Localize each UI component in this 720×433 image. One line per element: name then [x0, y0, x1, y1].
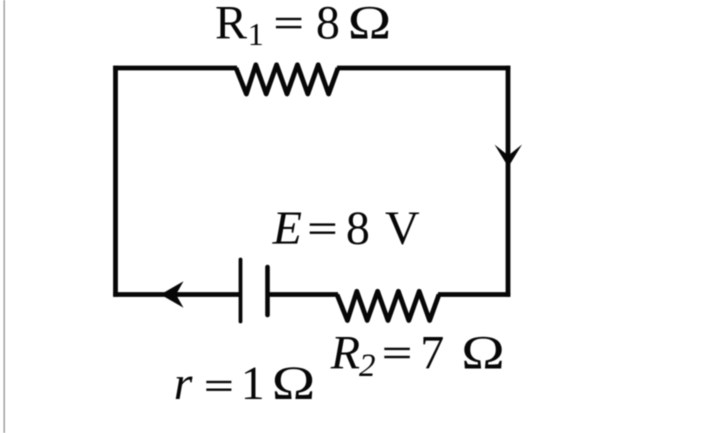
svg-text:E: E [272, 202, 302, 255]
svg-text:8: 8 [316, 0, 340, 50]
current arrow (downward) on right wire [495, 145, 523, 168]
wire: battery to bottom-left corner [113, 292, 240, 297]
svg-text:Ω: Ω [461, 325, 505, 379]
wire: right side [506, 66, 511, 297]
svg-text:1: 1 [241, 357, 265, 410]
wire: bottom side, right segment [438, 292, 510, 297]
svg-text:Ω: Ω [348, 0, 392, 49]
label R2 = 7 ohm [330, 325, 505, 384]
svg-text:8: 8 [346, 202, 370, 255]
svg-text:R: R [215, 0, 247, 50]
svg-text:Ω: Ω [272, 356, 316, 410]
battery plate (short) [265, 267, 270, 315]
current arrow (leftward) on bottom wire [161, 281, 184, 307]
svg-text:R: R [330, 327, 360, 380]
label E = 8 V [272, 202, 420, 255]
svg-text:V: V [385, 202, 420, 255]
resistor R2 [337, 291, 439, 320]
label r = 1 ohm [174, 356, 316, 410]
wire: R2 to battery right plate [268, 292, 339, 297]
resistor R1 [236, 65, 338, 94]
wire: top side, right segment [337, 66, 510, 71]
svg-text:2: 2 [359, 348, 376, 384]
wire: left side [113, 66, 118, 297]
svg-text:r: r [174, 357, 193, 410]
svg-text:7: 7 [420, 327, 444, 380]
wire: top side, left segment [113, 66, 237, 71]
battery plate (long) [239, 260, 243, 322]
label R1 = 8 ohm [215, 0, 391, 52]
svg-text:1: 1 [248, 16, 264, 52]
